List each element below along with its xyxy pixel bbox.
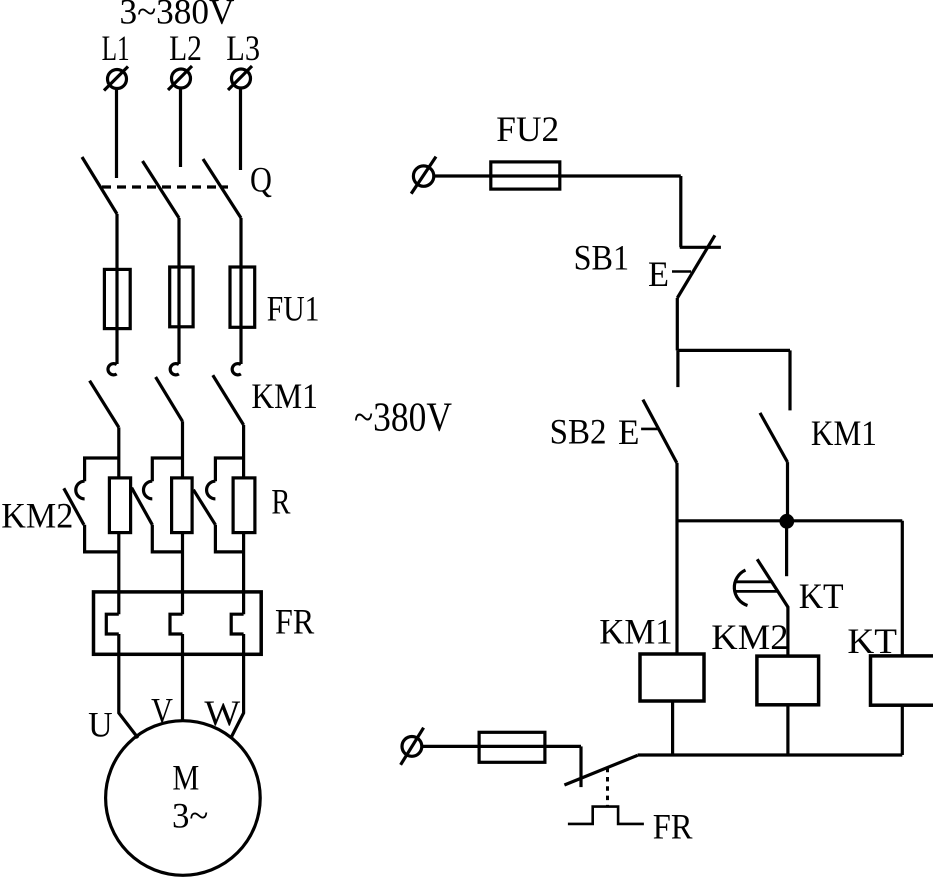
svg-text:FR: FR [275,602,314,642]
svg-text:E: E [618,412,640,452]
svg-text:KM1: KM1 [811,413,877,453]
svg-text:L3: L3 [226,28,260,68]
svg-text:V: V [151,690,173,730]
svg-text:E: E [648,254,669,294]
svg-text:KT: KT [847,621,897,661]
svg-text:U: U [88,704,113,744]
svg-text:KT: KT [799,576,844,616]
svg-text:R: R [271,482,290,522]
svg-text:M: M [172,758,199,798]
svg-text:3~: 3~ [172,796,208,836]
svg-text:SB2: SB2 [550,412,607,452]
svg-text:FU2: FU2 [496,109,559,149]
svg-text:FU1: FU1 [267,288,320,328]
svg-text:SB1: SB1 [574,237,630,277]
svg-text:KM1: KM1 [599,612,673,652]
svg-text:Q: Q [250,160,272,200]
svg-text:FR: FR [653,806,693,846]
svg-text:L2: L2 [169,28,202,68]
svg-text:3~380V: 3~380V [120,0,235,31]
svg-text:KM2: KM2 [1,495,73,535]
svg-text:KM1: KM1 [251,376,318,416]
svg-text:~380V: ~380V [354,393,452,439]
svg-text:L1: L1 [102,28,130,68]
svg-text:W: W [204,693,240,733]
svg-text:KM2: KM2 [711,617,788,657]
